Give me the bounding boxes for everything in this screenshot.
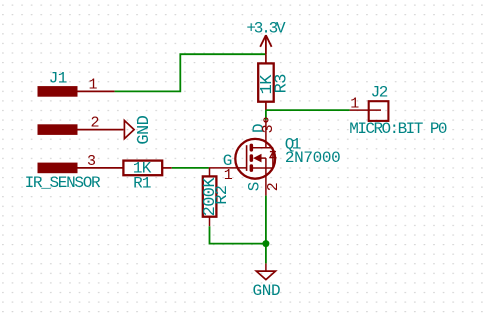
transistor Q1 channel bar (source side) xyxy=(250,164,254,172)
svg-text:GND: GND xyxy=(253,282,281,300)
transistor Q1 body diode xyxy=(270,152,276,158)
connector J1 pin 1 xyxy=(38,86,115,97)
svg-text:S: S xyxy=(245,182,263,191)
transistor Q1 drain internal wiring xyxy=(251,148,273,168)
connector J1 pin 3 xyxy=(38,163,124,174)
connector J2 xyxy=(350,101,389,121)
wire R1 to gate (green portion) xyxy=(172,167,209,169)
svg-text:2N7000: 2N7000 xyxy=(285,149,341,167)
transistor Q1 body arrow xyxy=(253,154,262,163)
svg-text:R1: R1 xyxy=(133,175,151,193)
svg-text:IR_SENSOR: IR_SENSOR xyxy=(25,174,101,192)
wire R2 bottom to junction xyxy=(210,226,266,243)
transistor Q1 gate bar xyxy=(246,145,248,171)
svg-text:J1: J1 xyxy=(49,70,67,88)
svg-text:2: 2 xyxy=(91,115,99,132)
transistor Q1 drain pin xyxy=(265,120,267,148)
transistor Q1 source pin xyxy=(265,168,267,196)
svg-text:+3.3V: +3.3V xyxy=(246,19,286,37)
svg-text:MICRO:BIT P0: MICRO:BIT P0 xyxy=(349,120,447,138)
svg-text:R3: R3 xyxy=(272,74,291,94)
connector J1 pin 2 xyxy=(38,124,124,135)
resistor R3 xyxy=(258,54,274,110)
junction dot xyxy=(262,240,269,247)
power symbol +3.3V xyxy=(260,35,271,54)
resistor R2 xyxy=(203,168,217,226)
transistor Q1 channel bar (drain side) xyxy=(250,144,254,152)
power symbol GND (rotated, at J1 pin 2) xyxy=(123,121,134,139)
svg-text:R2: R2 xyxy=(213,186,232,205)
power symbol GND (bottom) xyxy=(256,263,275,279)
wire source to GND xyxy=(265,196,267,264)
transistor Q1 body-to-source link xyxy=(262,158,266,168)
drain pin end circle xyxy=(264,118,268,122)
transistor Q1 body circle xyxy=(235,139,275,179)
transistor Q1 gate pin line xyxy=(209,167,247,169)
transistor Q1 channel bar (middle) xyxy=(250,154,254,162)
wire J1 pin1 to +3.3V rail xyxy=(115,54,266,91)
resistor R1 xyxy=(123,161,171,176)
svg-text:GND: GND xyxy=(135,115,154,144)
svg-text:J2: J2 xyxy=(371,84,388,102)
svg-text:2: 2 xyxy=(265,183,282,191)
wire R3 bottom to J2 and drain xyxy=(266,110,350,120)
